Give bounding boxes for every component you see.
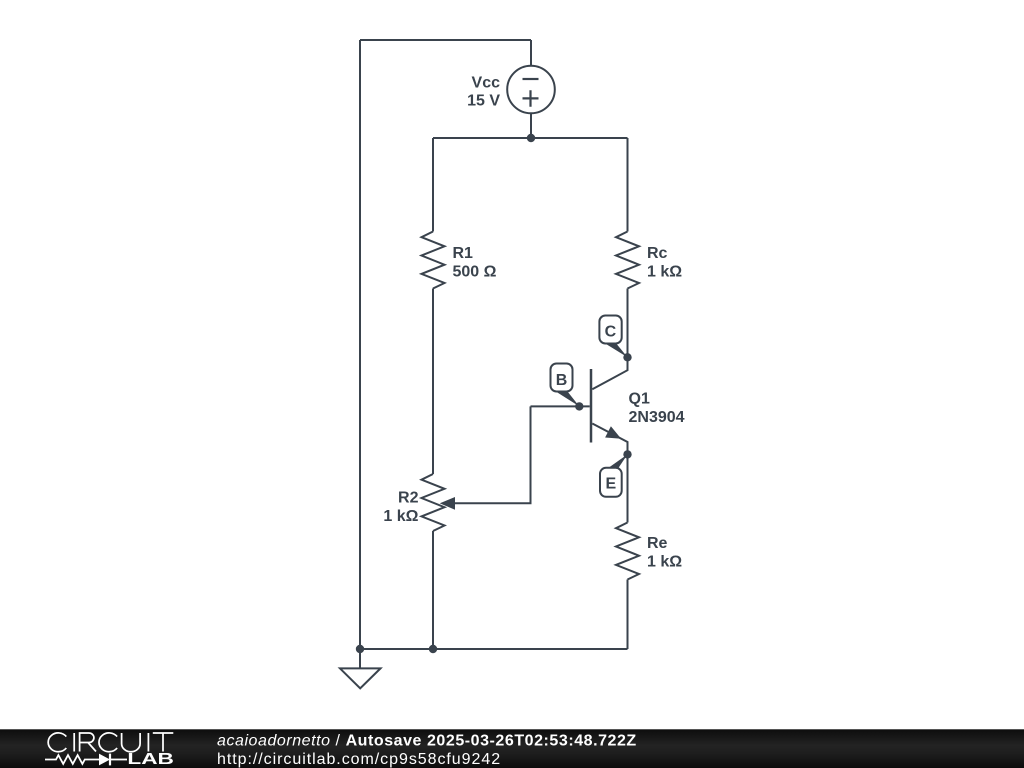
pin label B base: [551, 364, 580, 407]
wire left rail vertical: [359, 40, 361, 649]
svg-text:R2: R2: [398, 490, 419, 507]
svg-text:acaioadornetto / Autosave 2025: acaioadornetto / Autosave 2025-03-26T02:…: [217, 733, 637, 750]
wire base lead horizontal: [531, 405, 590, 407]
wire bottom rail: [360, 648, 628, 650]
svg-text:1 kΩ: 1 kΩ: [647, 264, 682, 281]
wire base network vertical: [530, 406, 532, 503]
footer author line: [217, 733, 637, 750]
pin label C collector: [599, 316, 627, 358]
wire R2 bottom lead: [432, 531, 434, 649]
resistor Re: [616, 523, 639, 580]
ground symbol GND: [340, 649, 381, 688]
node base junction: [575, 402, 583, 410]
svg-text:15 V: 15 V: [467, 93, 500, 110]
footer bar: [0, 729, 1024, 768]
svg-text:2N3904: 2N3904: [629, 409, 685, 426]
wire top horizontal from left rail to Vcc: [360, 39, 531, 41]
CircuitLab logo LAB: [127, 751, 173, 768]
svg-text:E: E: [605, 476, 616, 493]
value label R2 1 kOhm: [383, 490, 418, 526]
wire Re bottom lead: [627, 580, 629, 650]
svg-text:Q1: Q1: [629, 391, 650, 408]
svg-text:Rc: Rc: [647, 245, 668, 262]
wire Rc bottom to collector: [627, 289, 629, 358]
svg-text:500 Ω: 500 Ω: [453, 264, 497, 281]
svg-text:B: B: [556, 372, 568, 389]
value label R1 500 Ohm: [453, 245, 497, 281]
node junction below Vcc: [527, 134, 535, 142]
potentiometer R2: [422, 474, 445, 531]
node collector junction: [623, 353, 631, 361]
value label Rc 1 kOhm: [647, 245, 682, 281]
wire wiper horizontal: [452, 502, 532, 504]
node emitter junction: [623, 450, 631, 458]
svg-text:LAB: LAB: [127, 751, 173, 768]
voltage source V1 Vcc: [507, 66, 555, 114]
CircuitLab logo schematic line: [45, 754, 127, 766]
svg-text:1 kΩ: 1 kΩ: [647, 554, 682, 571]
wire horizontal distribution: [433, 137, 628, 139]
resistor R1: [422, 232, 445, 289]
svg-text:Re: Re: [647, 535, 668, 552]
transistor Q1 2N3904: [591, 357, 628, 454]
svg-text:http://circuitlab.com/cp9s58cf: http://circuitlab.com/cp9s58cfu9242: [217, 751, 501, 768]
resistor Rc: [616, 232, 639, 289]
wire R1 bottom to R2 top: [432, 289, 434, 475]
wire emitter to Re: [627, 454, 629, 522]
wire R1 top lead: [432, 138, 434, 232]
value label Re 1 kOhm: [647, 535, 682, 571]
CircuitLab logo CIRCUIT: [48, 733, 173, 752]
node bottom junction R2: [429, 645, 437, 653]
svg-text:Vcc: Vcc: [472, 75, 501, 92]
svg-text:1 kΩ: 1 kΩ: [383, 508, 418, 525]
wire Vcc top lead: [530, 40, 532, 66]
wire Vcc bottom lead: [530, 113, 532, 138]
wire Rc top lead: [627, 138, 629, 232]
wiper arrow of R2: [441, 498, 455, 509]
node ground junction left: [356, 645, 364, 653]
value label Vcc 15 V: [467, 75, 500, 110]
svg-text:C: C: [605, 324, 617, 341]
footer url line: [217, 751, 501, 768]
value label Q1 2N3904: [629, 391, 685, 427]
pin label E emitter: [600, 454, 628, 496]
svg-text:R1: R1: [453, 245, 474, 262]
